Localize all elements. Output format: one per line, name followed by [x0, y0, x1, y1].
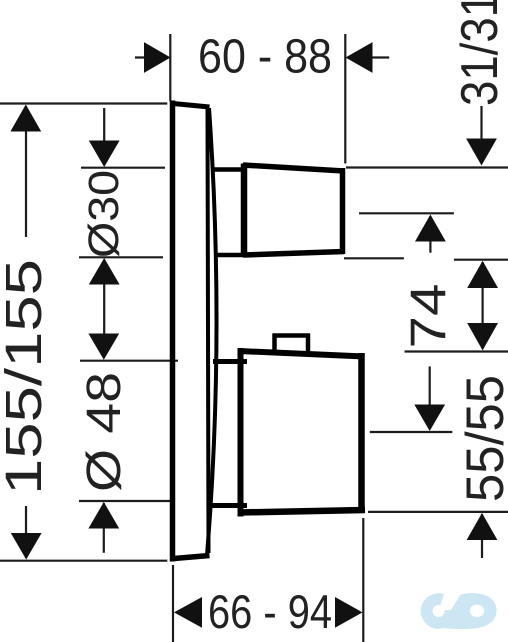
svg-text:155/155: 155/155: [0, 259, 52, 495]
svg-text:31/31: 31/31: [451, 0, 508, 106]
svg-text:Ø 48: Ø 48: [77, 372, 131, 492]
svg-text:Ø30: Ø30: [80, 170, 128, 258]
svg-text:66 - 94: 66 - 94: [208, 585, 332, 638]
svg-text:55/55: 55/55: [456, 375, 508, 502]
svg-text:60 - 88: 60 - 88: [198, 31, 332, 84]
svg-text:74: 74: [401, 284, 457, 349]
